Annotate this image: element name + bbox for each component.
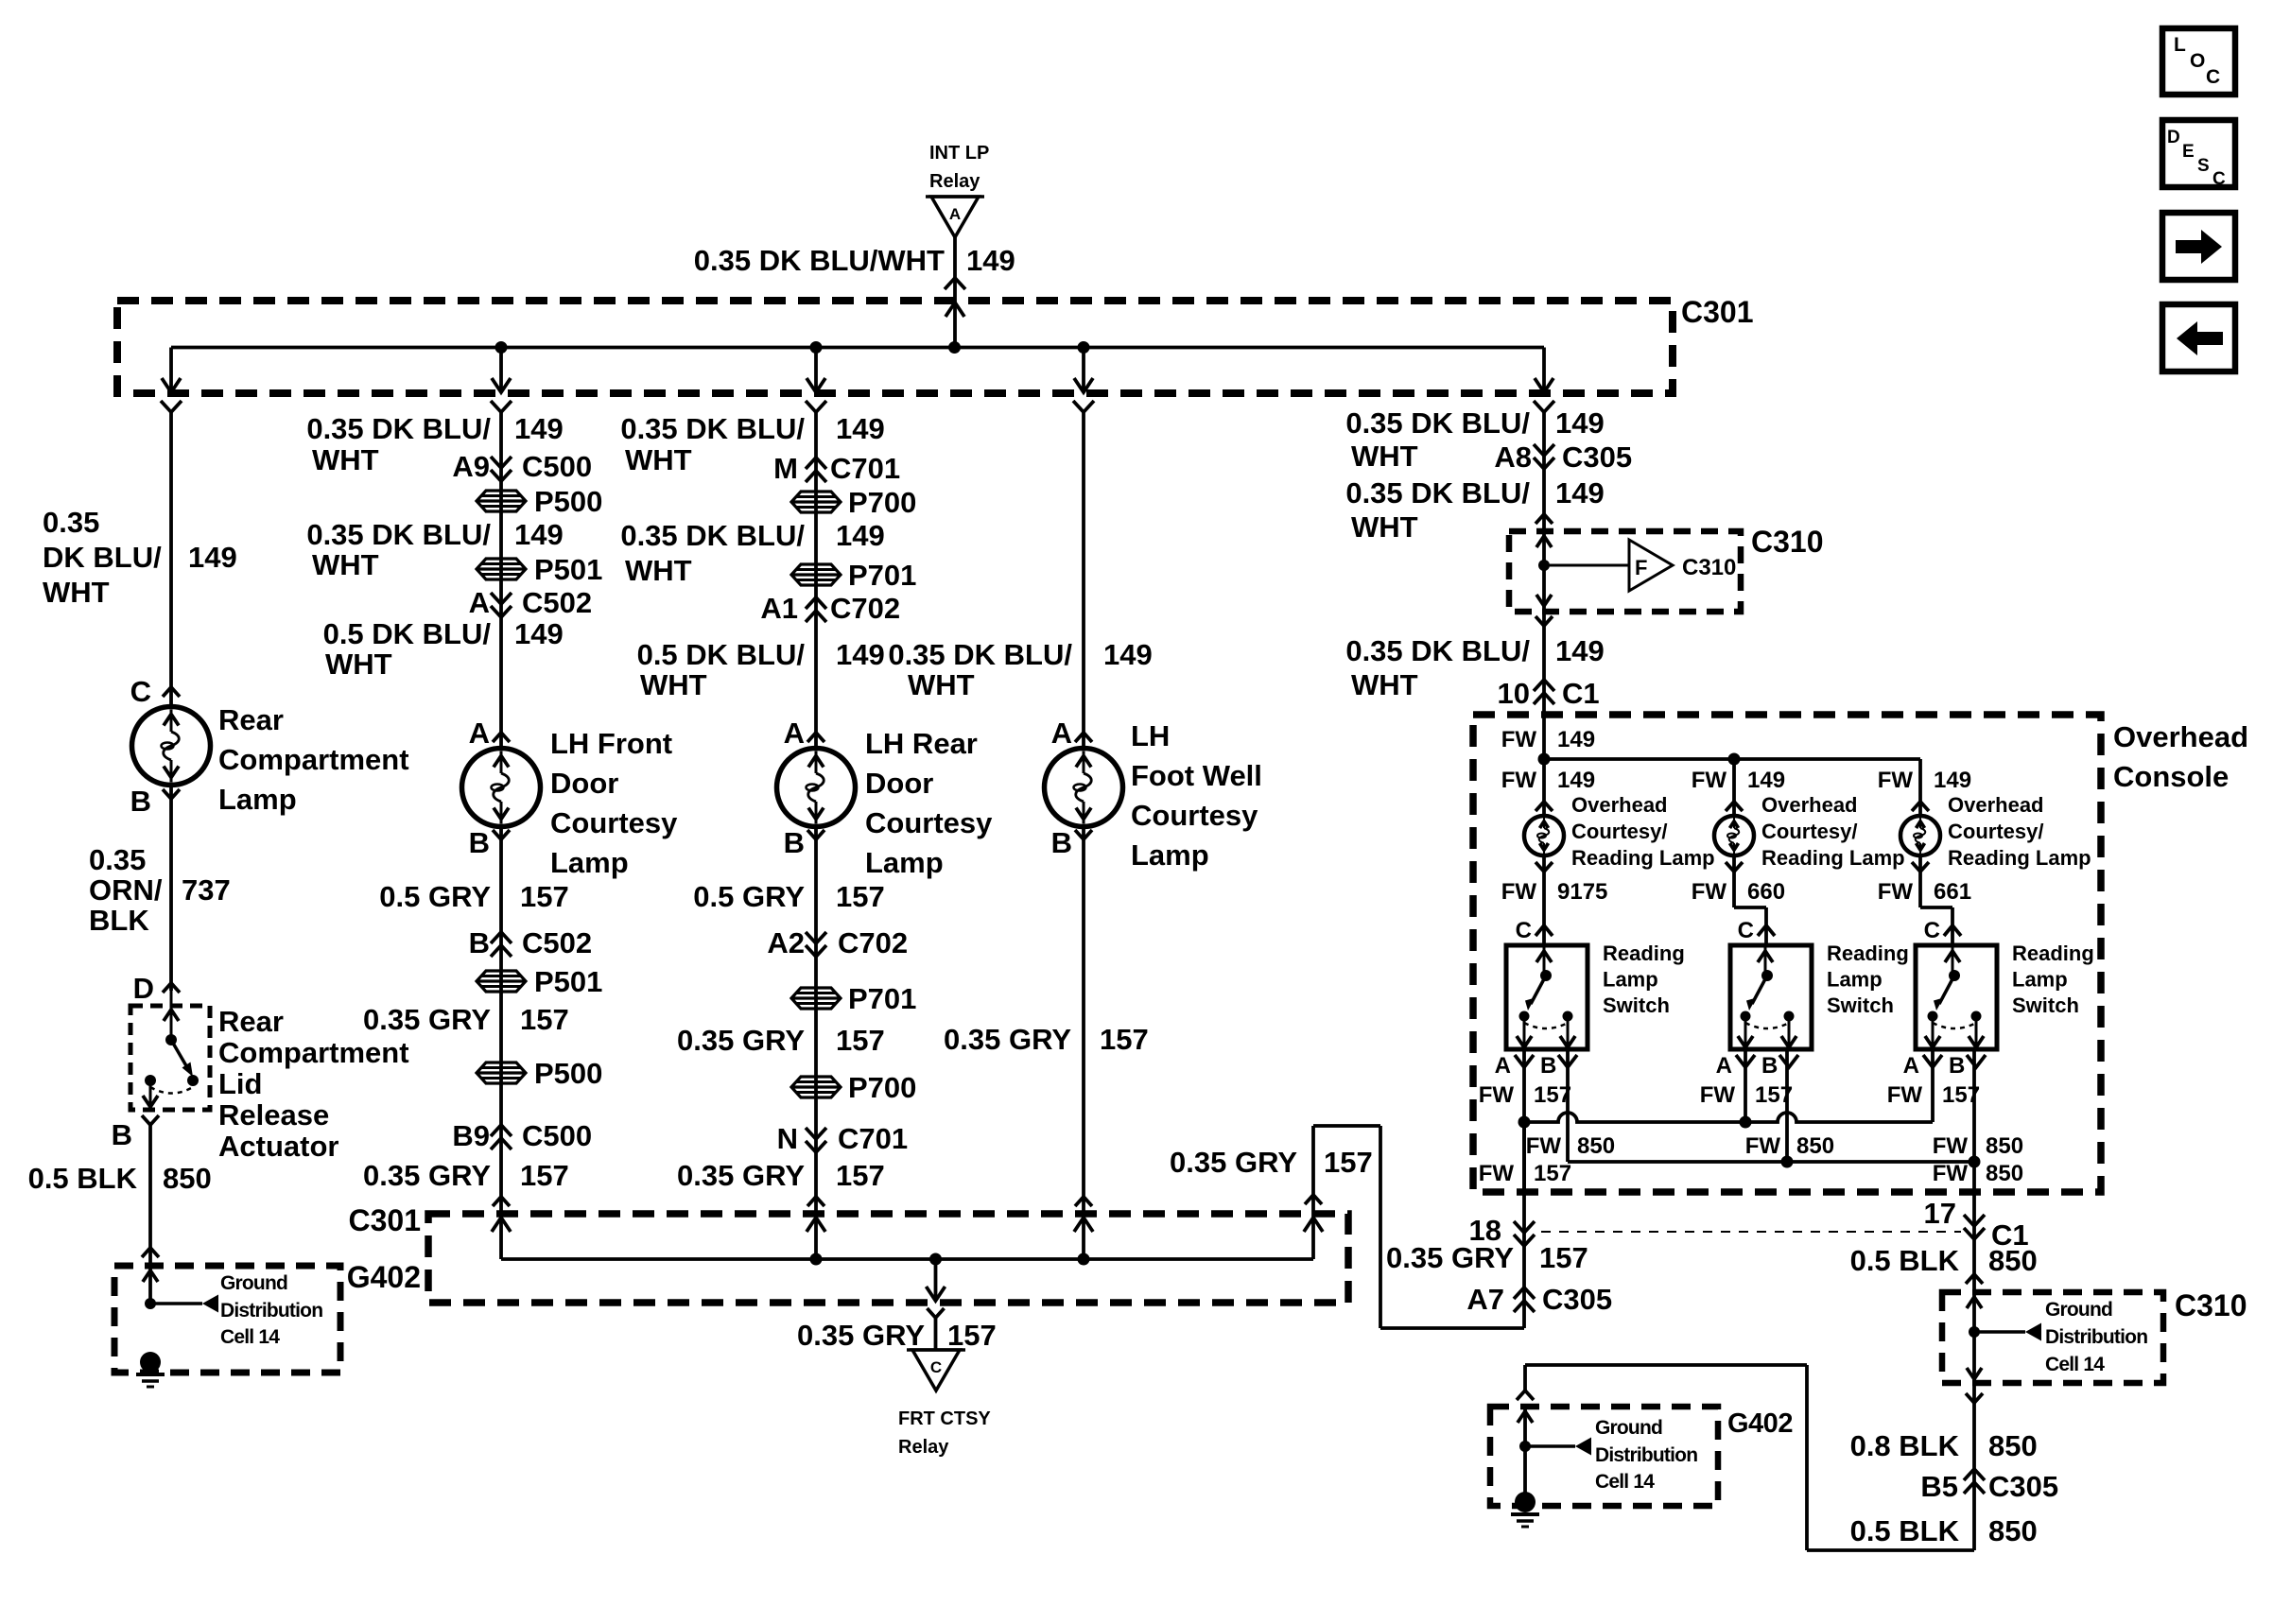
wire 157 from A bus down to pin 18 (console exit) — [1479, 1122, 1571, 1192]
svg-text:149: 149 — [1557, 727, 1595, 752]
svg-text:C310: C310 — [1682, 555, 1736, 580]
label LH Rear Door Courtesy Lamp — [865, 727, 993, 879]
label Overhead Courtesy/Reading Lamp 2 — [1761, 793, 1905, 870]
wire to overhead lamp 2 — [1692, 759, 1785, 816]
svg-text:P500: P500 — [534, 1057, 602, 1090]
junction dot at LH front door branch — [495, 341, 508, 354]
svg-text:Courtesy/: Courtesy/ — [1761, 820, 1857, 843]
svg-text:C301: C301 — [1681, 295, 1754, 329]
svg-text:149: 149 — [966, 244, 1015, 277]
svg-text:D: D — [2167, 128, 2180, 147]
svg-text:850: 850 — [1988, 1429, 2038, 1462]
svg-text:Switch: Switch — [2012, 993, 2079, 1017]
svg-text:Reading Lamp: Reading Lamp — [1948, 846, 2091, 870]
wire label 0.5 DK BLU/WHT 149 (front door) — [323, 617, 564, 681]
svg-text:C702: C702 — [830, 592, 900, 625]
svg-text:Ground: Ground — [2045, 1299, 2112, 1321]
svg-text:0.35 GRY: 0.35 GRY — [677, 1024, 805, 1057]
svg-text:A: A — [469, 717, 490, 750]
chevron above C310 — [1536, 514, 1553, 524]
lamp: Overhead Courtesy/Reading Lamp 1 — [1524, 816, 1564, 855]
Ground Distribution Cell 14 box (G402 right) — [1490, 1407, 1718, 1506]
svg-text:157: 157 — [1534, 1082, 1571, 1108]
svg-text:P500: P500 — [534, 485, 602, 518]
label Reading Lamp Switch 3 — [2012, 942, 2094, 1017]
svg-text:660: 660 — [1747, 879, 1785, 905]
svg-text:0.5 GRY: 0.5 GRY — [379, 880, 491, 913]
svg-text:Lamp: Lamp — [550, 846, 629, 879]
svg-text:850: 850 — [1577, 1133, 1615, 1159]
svg-text:N: N — [777, 1122, 798, 1155]
svg-text:157: 157 — [836, 1159, 885, 1192]
svg-text:LH Rear: LH Rear — [865, 727, 978, 760]
svg-text:Switch: Switch — [1603, 993, 1670, 1017]
svg-text:157: 157 — [520, 1003, 569, 1036]
svg-text:L: L — [2174, 34, 2186, 56]
switch B wire 3 — [1933, 1049, 2023, 1162]
svg-text:0.35 DK BLU/: 0.35 DK BLU/ — [1345, 476, 1530, 510]
switch A wire 2 — [1744, 1049, 1747, 1122]
label C301 — [1681, 295, 1754, 329]
svg-text:149: 149 — [1555, 406, 1605, 440]
Reading Lamp Switch 3 — [1916, 945, 1997, 1049]
svg-text:WHT: WHT — [312, 548, 379, 581]
wire 850 from B bus down to pin 17 (console exit) — [1933, 1161, 2023, 1292]
svg-text:0.35 DK BLU/: 0.35 DK BLU/ — [1345, 634, 1530, 667]
svg-text:Lamp: Lamp — [1827, 968, 1883, 992]
svg-text:0.35 DK BLU/: 0.35 DK BLU/ — [620, 412, 805, 445]
svg-text:B: B — [784, 826, 805, 859]
svg-text:E: E — [2182, 142, 2195, 162]
svg-text:B: B — [1949, 1053, 1965, 1079]
wire drop to FRT CTSY relay — [927, 1259, 946, 1350]
svg-text:WHT: WHT — [312, 443, 379, 476]
junction dot rear door / bus — [810, 1253, 823, 1266]
svg-text:WHT: WHT — [625, 554, 692, 587]
svg-text:FW: FW — [1692, 768, 1727, 793]
pass-through P700 — [791, 486, 916, 519]
svg-text:LH Front: LH Front — [550, 727, 672, 760]
svg-text:0.35 DK BLU/: 0.35 DK BLU/ — [306, 518, 491, 551]
svg-text:A: A — [1051, 717, 1072, 750]
wire label 0.8 BLK 850 — [1850, 1429, 2038, 1462]
wire label 0.35 GRY 157 (pin 18) — [1386, 1241, 1588, 1274]
label Rear Compartment Lamp — [218, 703, 409, 816]
svg-text:850: 850 — [163, 1162, 212, 1195]
svg-text:C: C — [130, 675, 151, 708]
svg-text:C301: C301 — [349, 1203, 422, 1237]
svg-text:B: B — [469, 826, 490, 859]
svg-text:A9: A9 — [452, 450, 490, 483]
wire bus inside C301/G402 — [501, 1257, 1313, 1261]
svg-text:149: 149 — [514, 518, 564, 551]
svg-text:C: C — [1924, 918, 1940, 943]
svg-text:737: 737 — [182, 873, 231, 907]
connector C301/G402 (bottom dashed box) — [428, 1214, 1348, 1303]
wire label 0.35 GRY 157 (front door lower) — [363, 1159, 569, 1192]
svg-text:B: B — [130, 785, 151, 818]
svg-text:Lamp: Lamp — [1131, 838, 1209, 872]
svg-text:LH: LH — [1131, 719, 1170, 752]
svg-text:157: 157 — [836, 880, 885, 913]
wire label 0.5 GRY 157 (rear door) — [693, 880, 884, 913]
connector pin 17 of C1 — [1924, 1197, 2029, 1252]
wire to overhead lamp 1 — [1501, 768, 1595, 811]
svg-text:0.35 DK BLU/: 0.35 DK BLU/ — [888, 638, 1072, 671]
connector A C502 — [469, 586, 593, 619]
connector pin 18 of C1 — [1469, 1214, 1535, 1247]
wire label 0.35 DK BLU/WHT 149 (front door upper) — [306, 412, 563, 476]
svg-text:Lamp: Lamp — [2012, 968, 2068, 992]
svg-text:A: A — [1903, 1053, 1919, 1079]
ground distribution link (G402 right) — [1518, 1407, 1697, 1502]
svg-text:WHT: WHT — [1351, 668, 1418, 701]
svg-text:B: B — [1051, 826, 1072, 859]
bus drop arrow to LH front door column — [491, 348, 512, 413]
svg-text:Lamp: Lamp — [1603, 968, 1658, 992]
junction dot at foot well branch — [1078, 341, 1090, 354]
connector 10 C1 — [1498, 677, 1600, 710]
actuator switch — [143, 991, 199, 1107]
ground symbol G402 (left) — [136, 1352, 165, 1387]
svg-text:Rear: Rear — [218, 703, 284, 736]
svg-text:A7: A7 — [1466, 1283, 1504, 1316]
wire 149 to rear compartment lamp — [169, 412, 173, 707]
svg-text:149: 149 — [836, 638, 885, 671]
relay triangle C (FRT CTSY Relay) — [907, 1350, 965, 1391]
svg-text:Cell 14: Cell 14 — [2045, 1354, 2105, 1375]
connector B C502 — [469, 926, 593, 959]
svg-text:Courtesy: Courtesy — [865, 806, 993, 839]
svg-text:WHT: WHT — [1351, 440, 1418, 473]
svg-text:Courtesy: Courtesy — [550, 806, 678, 839]
pin B label foot well lamp — [1051, 826, 1092, 859]
svg-text:G402: G402 — [347, 1260, 421, 1294]
svg-text:157: 157 — [1534, 1161, 1571, 1186]
svg-text:C1: C1 — [1562, 677, 1600, 710]
svg-text:FW: FW — [1933, 1161, 1969, 1186]
pass-through P501 — [477, 553, 602, 586]
ground symbol G402 (right) — [1511, 1492, 1539, 1527]
svg-text:G402: G402 — [1727, 1408, 1793, 1439]
pin A label rear door lamp — [784, 717, 824, 750]
svg-text:A: A — [469, 586, 490, 619]
wire 149 to LH front door lamp — [499, 412, 503, 749]
label C310 (ground box) — [2175, 1288, 2247, 1322]
svg-text:C: C — [2212, 169, 2226, 189]
svg-text:Console: Console — [2113, 760, 2229, 793]
svg-text:WHT: WHT — [325, 648, 392, 681]
svg-text:0.35 GRY: 0.35 GRY — [1386, 1241, 1514, 1274]
svg-text:157: 157 — [836, 1024, 885, 1057]
svg-text:157: 157 — [1539, 1241, 1588, 1274]
svg-text:Switch: Switch — [1827, 993, 1894, 1017]
svg-text:850: 850 — [1796, 1133, 1834, 1159]
svg-text:FW: FW — [1501, 768, 1537, 793]
wire FW 661 lamp 3 to switch 3 — [1878, 855, 1971, 945]
svg-text:Foot Well: Foot Well — [1131, 759, 1262, 792]
pass-through P701 (return) — [791, 982, 916, 1015]
pin D label — [133, 972, 180, 1005]
bus drop arrow to rear compartment column — [161, 348, 182, 413]
wire bus inside C301 — [171, 346, 1544, 350]
wire label 0.35 DK BLU/WHT 149 (between P500 P501) — [306, 518, 563, 581]
junction dot overhead lamp 1 — [1538, 753, 1551, 766]
wire label FW 149 (feed) — [1501, 727, 1595, 752]
svg-text:C: C — [930, 1358, 942, 1376]
switch A wire 1 (to pin 18) — [1522, 1049, 1526, 1122]
wire to overhead lamp 3 — [1878, 759, 1971, 816]
svg-text:Compartment: Compartment — [218, 743, 409, 776]
svg-text:661: 661 — [1934, 879, 1971, 905]
wire label 0.5 BLK 850 (pin 17) — [1850, 1244, 2038, 1277]
svg-text:P700: P700 — [848, 486, 916, 519]
junction dot FRT CTSY drop / bus — [929, 1253, 942, 1266]
svg-text:C500: C500 — [522, 450, 592, 483]
button next-page arrow — [2162, 213, 2235, 280]
switch 3 pins A B — [1887, 1053, 1986, 1108]
chevron below C310 — [1536, 616, 1553, 626]
svg-text:149: 149 — [1747, 768, 1785, 793]
svg-text:Lamp: Lamp — [218, 783, 297, 816]
C1 connector dashed separator line — [1541, 1231, 1961, 1233]
entry into C301/G402 box (front door) — [492, 1197, 511, 1232]
FRT CTSY Relay label — [898, 1408, 991, 1458]
svg-text:B9: B9 — [452, 1119, 490, 1152]
svg-text:A: A — [949, 205, 961, 223]
Reading Lamp Switch 2 — [1730, 945, 1812, 1049]
svg-text:0.35 GRY: 0.35 GRY — [797, 1319, 925, 1352]
svg-text:149: 149 — [1103, 638, 1153, 671]
wire 850 below C310 ground box — [1966, 1383, 1983, 1550]
INT LP Relay label — [929, 143, 989, 192]
label LH Front Door Courtesy Lamp — [550, 727, 678, 879]
svg-text:149: 149 — [1555, 476, 1605, 510]
wire 149 to LH rear door lamp — [814, 412, 818, 749]
svg-text:FW: FW — [1526, 1133, 1562, 1159]
svg-text:Ground: Ground — [1595, 1417, 1662, 1439]
connector N C701 — [777, 1122, 909, 1155]
svg-text:850: 850 — [1986, 1161, 2023, 1186]
switch B wire 1 — [1526, 1049, 1615, 1162]
wire label 0.35 GRY 157 (jog) — [1170, 1146, 1373, 1179]
svg-text:S: S — [2197, 156, 2210, 176]
svg-text:149: 149 — [514, 412, 564, 445]
svg-text:Release: Release — [218, 1098, 329, 1132]
svg-text:157: 157 — [520, 880, 569, 913]
button previous-page arrow — [2162, 304, 2235, 371]
svg-text:Distribution: Distribution — [2045, 1326, 2147, 1348]
svg-text:Ground: Ground — [220, 1272, 287, 1294]
svg-text:0.35 DK BLU/WHT: 0.35 DK BLU/WHT — [694, 244, 945, 277]
label C310 (top) — [1751, 525, 1824, 559]
chevron above C310 ground box — [1966, 1274, 1983, 1284]
lamp: LH Rear Door Courtesy Lamp — [777, 749, 856, 827]
svg-text:Relay: Relay — [898, 1437, 949, 1458]
svg-text:Distribution: Distribution — [220, 1300, 322, 1322]
pass-through P701 — [791, 559, 916, 592]
svg-text:0.35 DK BLU/: 0.35 DK BLU/ — [1345, 406, 1530, 440]
svg-text:FW: FW — [1501, 879, 1537, 905]
svg-text:C502: C502 — [522, 586, 592, 619]
svg-text:157: 157 — [1100, 1023, 1149, 1056]
svg-text:Overhead: Overhead — [1571, 793, 1668, 817]
svg-text:Courtesy: Courtesy — [1131, 799, 1258, 832]
svg-text:0.35 GRY: 0.35 GRY — [677, 1159, 805, 1192]
svg-text:10: 10 — [1498, 677, 1530, 710]
lamp: Overhead Courtesy/Reading Lamp 2 — [1714, 816, 1754, 855]
pin A label foot well lamp — [1051, 717, 1092, 750]
connector C310 (dashed box) — [1509, 531, 1741, 612]
junction dot B bus at switch 3 — [1969, 1156, 1981, 1168]
wire FW 9175 lamp 1 to switch 1 — [1501, 855, 1608, 945]
svg-text:B5: B5 — [1920, 1470, 1958, 1503]
label Reading Lamp Switch 1 — [1603, 942, 1685, 1017]
svg-text:9175: 9175 — [1557, 879, 1607, 905]
svg-text:B: B — [1761, 1053, 1778, 1079]
pin C label — [130, 675, 180, 708]
wire 149 from C301 to overhead console — [1542, 412, 1546, 816]
wire label 0.5 DK BLU/WHT 149 (rear door) — [637, 638, 885, 701]
svg-text:0.5 BLK: 0.5 BLK — [1850, 1244, 1960, 1277]
wire label 0.35 DK BLU/WHT 149 (right, above A8) — [1345, 406, 1604, 473]
connector A8 C305 — [1494, 441, 1632, 474]
svg-text:850: 850 — [1988, 1514, 2038, 1547]
connector B5 C305 — [1920, 1469, 2058, 1503]
svg-text:Lamp: Lamp — [865, 846, 944, 879]
svg-text:FW: FW — [1501, 727, 1537, 752]
wire from INT LP relay to C301 — [945, 237, 965, 347]
svg-text:F: F — [1635, 556, 1647, 579]
wire label 0.35 GRY 157 (rear door mid) — [677, 1024, 885, 1057]
svg-text:C305: C305 — [1542, 1283, 1612, 1316]
svg-text:Overhead: Overhead — [1761, 793, 1858, 817]
svg-text:FW: FW — [1745, 1133, 1781, 1159]
svg-text:Reading: Reading — [1827, 942, 1909, 965]
svg-text:157: 157 — [520, 1159, 569, 1192]
svg-text:17: 17 — [1924, 1197, 1956, 1230]
label Reading Lamp Switch 2 — [1827, 942, 1909, 1017]
svg-text:157: 157 — [1324, 1146, 1373, 1179]
svg-text:149: 149 — [836, 519, 885, 552]
svg-text:DK BLU/: DK BLU/ — [43, 541, 162, 574]
wire label 0.35 GRY 157 (rear door lower) — [677, 1159, 885, 1192]
svg-text:B: B — [469, 926, 490, 959]
svg-text:C310: C310 — [1751, 525, 1824, 559]
svg-text:P501: P501 — [534, 553, 602, 586]
wire label 0.35 GRY 157 (front door mid) — [363, 1003, 569, 1036]
connector A2 C702 — [767, 926, 908, 959]
svg-text:C500: C500 — [522, 1119, 592, 1152]
svg-text:0.35 DK BLU/: 0.35 DK BLU/ — [620, 519, 805, 552]
junction dot at INT LP relay branch — [948, 341, 961, 354]
wire label 0.5 BLK 850 — [28, 1162, 212, 1195]
svg-text:Lid: Lid — [218, 1067, 263, 1100]
svg-text:P701: P701 — [848, 982, 916, 1015]
svg-text:C305: C305 — [1988, 1470, 2058, 1503]
junction dot A bus at switch 1 — [1518, 1116, 1531, 1129]
relay triangle A (INT LP Relay) — [926, 197, 984, 237]
svg-text:FW: FW — [1887, 1082, 1923, 1108]
svg-text:0.8 BLK: 0.8 BLK — [1850, 1429, 1960, 1462]
Rear Compartment Lid Release Actuator (dashed box) — [130, 1006, 210, 1110]
svg-text:Distribution: Distribution — [1595, 1444, 1697, 1466]
label Overhead Console — [2113, 720, 2248, 793]
wire label 0.35 DK BLU/WHT 149 (right, below A8) — [1345, 476, 1604, 544]
wire label 0.35 GRY 157 (foot well) — [944, 1023, 1149, 1056]
svg-text:C502: C502 — [522, 926, 592, 959]
svg-text:0.35 GRY: 0.35 GRY — [944, 1023, 1071, 1056]
svg-text:Door: Door — [865, 767, 933, 800]
lamp: Overhead Courtesy/Reading Lamp 3 — [1900, 816, 1940, 855]
svg-text:BLK: BLK — [89, 904, 149, 937]
svg-text:A8: A8 — [1494, 441, 1532, 474]
svg-text:Courtesy/: Courtesy/ — [1571, 820, 1667, 843]
junction dot B bus at switch 2 — [1781, 1156, 1794, 1168]
lamp: LH Front Door Courtesy Lamp — [462, 749, 541, 827]
svg-text:ORN/: ORN/ — [89, 873, 163, 907]
svg-text:Reading Lamp: Reading Lamp — [1761, 846, 1905, 870]
wire FW 660 lamp 2 to switch 2 — [1692, 855, 1785, 945]
wire 850 to ground G402 — [142, 1125, 159, 1304]
svg-text:149: 149 — [514, 617, 564, 650]
svg-text:Cell 14: Cell 14 — [1595, 1471, 1655, 1493]
entry into C301/G402 box (foot well) — [1074, 1197, 1093, 1232]
junction dot A bus at switch 2 — [1740, 1116, 1752, 1129]
svg-text:A1: A1 — [760, 592, 798, 625]
svg-text:C: C — [1738, 918, 1754, 943]
junction dot overhead lamp 2 — [1728, 753, 1741, 766]
svg-text:850: 850 — [1986, 1133, 2023, 1159]
svg-text:WHT: WHT — [43, 576, 110, 609]
wire label 0.35 DK BLU/WHT 149 (between P700 P701) — [620, 519, 884, 587]
svg-text:Actuator: Actuator — [218, 1130, 338, 1163]
pass-through P700 (return) — [791, 1071, 916, 1104]
svg-text:D: D — [133, 972, 154, 1005]
svg-text:149: 149 — [188, 541, 237, 574]
wire 157 from foot well lamp to C301 — [1082, 827, 1085, 1260]
bus drop arrow to LH rear door column — [806, 348, 826, 413]
svg-text:B: B — [112, 1118, 132, 1151]
button LOC — [2162, 28, 2235, 95]
wire label 0.5 BLK 850 (bottom) — [1850, 1514, 2038, 1547]
connector M C701 — [773, 452, 900, 485]
svg-text:WHT: WHT — [908, 668, 975, 701]
label Overhead Courtesy/Reading Lamp 1 — [1571, 793, 1715, 870]
switch 1 pins A B — [1479, 1053, 1577, 1108]
svg-text:C: C — [2206, 66, 2220, 88]
connector A1 C702 — [760, 592, 900, 625]
svg-text:Reading Lamp: Reading Lamp — [1571, 846, 1715, 870]
svg-text:0.35: 0.35 — [89, 843, 146, 876]
svg-text:FW: FW — [1878, 768, 1914, 793]
svg-text:M: M — [773, 452, 798, 485]
C310 inline connector branch F — [1536, 536, 1736, 606]
label Overhead Courtesy/Reading Lamp 3 — [1948, 793, 2091, 870]
svg-text:0.35 DK BLU/: 0.35 DK BLU/ — [306, 412, 491, 445]
wire 157 from front door lamp to C301 — [499, 827, 503, 1260]
svg-text:Door: Door — [550, 767, 618, 800]
label LH Foot Well Courtesy Lamp — [1131, 719, 1262, 872]
lamp: Rear Compartment Lamp — [132, 707, 211, 786]
switch B wire 2 — [1745, 1049, 1834, 1162]
svg-text:A: A — [1716, 1053, 1732, 1079]
svg-text:0.5 DK BLU/: 0.5 DK BLU/ — [637, 638, 806, 671]
connector A9 C500 — [452, 450, 592, 483]
label C301 (bottom box) — [349, 1203, 422, 1237]
svg-text:0.5 BLK: 0.5 BLK — [28, 1162, 138, 1195]
svg-text:0.35 GRY: 0.35 GRY — [363, 1159, 491, 1192]
